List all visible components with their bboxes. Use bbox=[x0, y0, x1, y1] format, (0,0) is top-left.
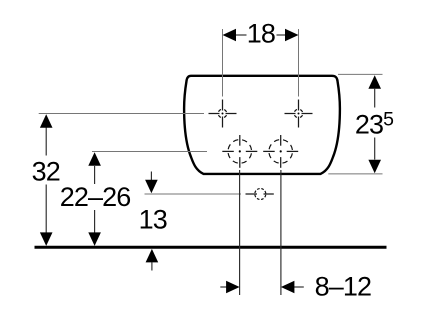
svg-text:18: 18 bbox=[247, 19, 275, 49]
svg-text:13: 13 bbox=[139, 205, 167, 235]
svg-text:32: 32 bbox=[32, 157, 60, 187]
svg-text:8–12: 8–12 bbox=[315, 272, 371, 302]
svg-text:22–26: 22–26 bbox=[60, 182, 131, 212]
